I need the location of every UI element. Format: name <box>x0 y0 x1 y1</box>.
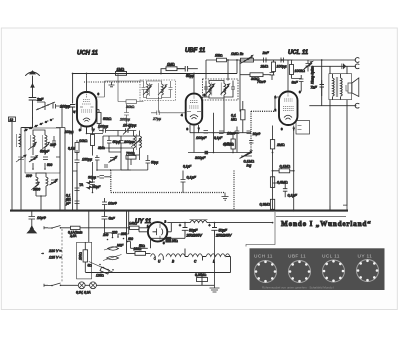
svg-text:100Ω: 100Ω <box>79 252 83 260</box>
svg-text:0,1µF: 0,1µF <box>288 194 298 198</box>
svg-text:0,5MΩ: 0,5MΩ <box>277 181 288 185</box>
heater taps <box>155 249 230 261</box>
capacitor 500pF <box>43 157 48 160</box>
socket panel dark box <box>250 248 385 290</box>
capacitor 0.1uF UBF k <box>219 131 224 134</box>
wire UCH pins <box>76 104 92 134</box>
svg-text:0,1MΩ: 0,1MΩ <box>280 165 291 169</box>
wire UBF k <box>220 133 222 135</box>
wire right of tuner <box>56 128 65 211</box>
wire antenna coupling <box>37 102 62 128</box>
resistor 10k screen <box>217 58 227 62</box>
resistor R 1M <box>116 72 127 76</box>
svg-text:UCL 11: UCL 11 <box>288 50 309 56</box>
IF transformer 1 box <box>140 80 176 101</box>
svg-text:0,1µF: 0,1µF <box>183 165 192 169</box>
svg-text:+: + <box>209 224 211 228</box>
UCH cathode parts <box>76 170 78 211</box>
tone cap Klang-Spitze <box>304 60 313 72</box>
svg-text:0,25MΩ: 0,25MΩ <box>195 273 207 277</box>
wire transformer <box>330 66 347 205</box>
svg-text:70nФ: 70nФ <box>257 80 266 84</box>
tuner trimmer arrows <box>28 142 37 150</box>
switch wafer dots 2 <box>37 108 39 110</box>
svg-text:UBF 11: UBF 11 <box>185 48 206 54</box>
resistor 0.5M UCL <box>270 177 274 188</box>
capacitor on shield line <box>247 131 252 134</box>
capacitor 5nF bus <box>102 211 108 228</box>
wire rail to UBF top <box>193 74 195 94</box>
capacitor 0.1uF UCL <box>283 183 288 197</box>
capacitor on shield <box>249 141 254 144</box>
detector chain top <box>228 59 356 61</box>
coil L5 <box>46 177 48 186</box>
transformer secondary <box>341 78 343 96</box>
tube UBF11 envelope <box>186 94 203 125</box>
resistor 55 diag <box>100 267 109 274</box>
capacitor 100uF <box>204 131 209 134</box>
ground on shielded bus <box>222 193 229 201</box>
svg-text:0,5MΩ: 0,5MΩ <box>224 142 234 146</box>
bus step to speaker <box>330 205 347 211</box>
resistor 700 <box>126 156 136 160</box>
trimmer arrow osc coil <box>131 138 142 147</box>
svg-text:→: → <box>41 251 44 255</box>
tuner cap small <box>52 136 56 148</box>
diode symbol on line <box>342 64 347 70</box>
ground on AVC <box>109 82 115 87</box>
tuner frame <box>25 128 60 173</box>
svg-text:50kΩ: 50kΩ <box>103 117 112 121</box>
tube UCH11 envelope <box>77 92 97 127</box>
fuse <box>71 226 81 229</box>
selector box <box>77 242 92 279</box>
capacitor 150pF <box>95 155 100 164</box>
wire IF1 <box>144 81 171 99</box>
resistor 0.3M UCL <box>270 199 274 209</box>
svg-text:1MΩ: 1MΩ <box>117 67 125 71</box>
wire avc <box>76 140 78 155</box>
wire heater right end <box>85 257 230 286</box>
svg-text:5Ω: 5Ω <box>88 264 93 268</box>
capacitor 8nF <box>299 75 304 87</box>
wire box <box>85 211 89 272</box>
UBF11 internals <box>190 94 198 103</box>
capacitor 0.1uF mains a <box>75 197 80 211</box>
wire screen feed <box>206 60 228 79</box>
wire sel to fuse <box>105 228 113 238</box>
resistor R 1M second <box>166 67 177 71</box>
shielded bus dotted <box>111 192 225 194</box>
dial lamp 2 <box>90 282 97 289</box>
svg-text:240: 240 <box>102 233 109 237</box>
svg-text:50Ω: 50Ω <box>139 244 146 248</box>
resistor 0.1M UCL grid <box>241 110 245 120</box>
wire osc mesh <box>103 136 139 155</box>
wire IF2 out <box>224 60 233 133</box>
capacitor 50pF <box>177 66 198 72</box>
resistor 0.1M AVC <box>75 143 79 153</box>
resistor 10k <box>91 135 95 146</box>
resistor 50k UCL <box>287 69 291 71</box>
wire antenna to tuner <box>22 118 33 128</box>
terminal 3 <box>355 103 359 108</box>
capacitor 50pF pad <box>146 155 151 170</box>
svg-text:UY 11: UY 11 <box>358 254 373 260</box>
svg-text:0,1M: 0,1M <box>68 147 75 151</box>
svg-text:log: log <box>247 164 252 168</box>
node dots filter <box>184 222 186 224</box>
svg-text:110: 110 <box>128 237 133 241</box>
trimmer osc2 <box>109 156 118 163</box>
AVC dashed line <box>84 81 140 83</box>
wire UCH to IF1 <box>97 81 144 97</box>
capacitor 0.1uF cath UY <box>181 171 186 193</box>
capacitor 100pF grid <box>70 105 78 112</box>
svg-text:2,5A: 2,5A <box>69 234 77 238</box>
wire osc mid vertical <box>114 131 129 137</box>
IF2 coil primary <box>209 84 211 95</box>
svg-text:0,1µF: 0,1µF <box>214 136 223 140</box>
wire rail to UCH top <box>86 74 88 93</box>
svg-text:10nФ: 10nФ <box>227 132 236 136</box>
svg-text:50µF: 50µF <box>219 229 228 233</box>
oscillator coil pair <box>134 136 136 148</box>
svg-text:1MΩ: 1MΩ <box>167 63 175 67</box>
wire rail drop to grid cap <box>72 74 74 104</box>
wire IF2 <box>206 81 233 99</box>
capacitor 30pF <box>97 176 111 179</box>
svg-text:125 V ≈: 125 V ≈ <box>49 256 61 260</box>
band switch contacts <box>24 118 55 131</box>
dial lamp 1 <box>78 282 85 289</box>
main ground bus <box>10 210 348 212</box>
capacitor 10nF mains b <box>102 198 107 211</box>
svg-text:200pµ: 200pµ <box>123 140 134 144</box>
IF1 capacitor right <box>169 88 173 90</box>
resistor 0.5M det2 <box>231 139 235 149</box>
svg-text:UCL 11: UCL 11 <box>322 254 340 260</box>
pot 0.1M log <box>240 151 253 159</box>
resistor 2M UCL <box>270 140 274 149</box>
output transformer frame <box>329 74 352 100</box>
resistor 30k det <box>250 73 263 77</box>
resistor 100k <box>290 65 294 75</box>
svg-text:220 V =: 220 V = <box>48 249 62 253</box>
filter box outline <box>246 212 275 247</box>
ground arrow mains <box>27 223 36 233</box>
shielded line to UCL dotted <box>251 110 275 112</box>
node osc <box>120 147 122 149</box>
wire osc grid return <box>112 155 148 170</box>
coil L3 <box>45 135 47 147</box>
wire UBF top to rail <box>193 74 195 89</box>
wire misc UCH bottom <box>87 127 104 193</box>
svg-text:Klang-Spitze: Klang-Spitze <box>311 66 315 84</box>
selector strut <box>89 262 113 273</box>
wire UCH cathode <box>73 111 77 211</box>
svg-text:100kΩ: 100kΩ <box>295 69 306 73</box>
resistor 140 <box>130 226 140 229</box>
svg-text:150pµ: 150pµ <box>82 158 92 162</box>
svg-text:10nФ: 10nФ <box>108 202 117 206</box>
IF2 coil secondary <box>224 84 226 95</box>
mains switch top <box>48 226 64 229</box>
speaker <box>348 83 352 93</box>
wire UCL col <box>273 126 294 211</box>
terminal 2 <box>355 64 359 69</box>
IF2 capacitor right <box>231 87 235 89</box>
transformer primary <box>333 78 335 96</box>
tone cap 7nF <box>320 80 325 96</box>
node rail <box>86 73 88 75</box>
wire UBF pins down <box>190 113 214 153</box>
selector rotor upper <box>108 247 119 251</box>
capacitor C-ant 2nF <box>29 95 36 118</box>
tuner extra coil core <box>31 135 43 148</box>
svg-text:5nF: 5nF <box>109 217 116 221</box>
ground at filter <box>210 236 220 293</box>
grid stopper network <box>275 97 280 111</box>
wire IF1 to UBF grid <box>159 97 186 113</box>
svg-text:UCH 11: UCH 11 <box>77 51 99 57</box>
electrolytic 50uF b <box>211 223 217 236</box>
svg-text:50µF: 50µF <box>189 229 198 233</box>
UY11 internals <box>153 229 157 236</box>
wire rail step <box>161 69 185 74</box>
wire rail to UCL top <box>287 60 289 92</box>
tube UCL11 envelope <box>279 92 298 126</box>
svg-text:13: 13 <box>10 118 14 122</box>
svg-text:125Ω: 125Ω <box>96 274 104 278</box>
svg-text:10kΩ: 10kΩ <box>79 139 88 143</box>
wire osc lower <box>97 155 131 170</box>
box resistor on bottom line <box>197 278 208 282</box>
IF2 capacitor left <box>204 87 208 89</box>
tube UY11 envelope <box>148 222 167 241</box>
wire rail junction x237 <box>236 60 238 74</box>
svg-text:100pµ: 100pµ <box>65 130 74 134</box>
svg-text:1MΩ lin: 1MΩ lin <box>231 52 243 56</box>
node dots top rail <box>236 59 238 61</box>
svg-text:MΩ: MΩ <box>231 118 237 122</box>
selector rotor lower <box>107 256 119 260</box>
wire lamps feed <box>78 253 127 285</box>
trimmer 15-50pF <box>114 127 137 135</box>
svg-text:50µF: 50µF <box>93 185 101 189</box>
capacitor 300uF <box>205 151 209 155</box>
svg-text:UY 11: UY 11 <box>135 219 152 225</box>
resistor 30ohm in box <box>83 250 88 262</box>
svg-text:8nF: 8nF <box>292 81 299 85</box>
filter choke <box>190 220 207 222</box>
svg-text:27pµ: 27pµ <box>152 117 161 121</box>
resistor 0.1M horizontal <box>279 169 290 173</box>
svg-text:100pµ: 100pµ <box>60 105 70 109</box>
svg-text:10µФ: 10µФ <box>253 132 261 136</box>
trimmer T2 <box>50 179 59 185</box>
resistor 160 <box>135 252 146 256</box>
wire det column <box>240 60 302 112</box>
svg-text:+: + <box>179 224 181 228</box>
svg-text:300µF: 300µF <box>195 156 206 160</box>
svg-text:30kΩ: 30kΩ <box>126 105 135 109</box>
svg-text:0,1µF: 0,1µF <box>187 176 197 180</box>
svg-text:500: 500 <box>47 163 53 167</box>
svg-text:L: L <box>213 260 215 264</box>
cathode resistor UY <box>166 237 171 242</box>
svg-text:30pµ: 30pµ <box>88 176 96 180</box>
node dots mid <box>213 132 215 134</box>
coil L4 <box>36 177 38 186</box>
IF1 coil secondary <box>162 84 164 95</box>
svg-text:500pF: 500pF <box>40 150 50 154</box>
voltage selector upper contacts <box>107 239 109 241</box>
UCH11 internals <box>82 92 91 104</box>
shielded lead TA vertical <box>233 171 235 211</box>
svg-text:10µФ: 10µФ <box>37 216 46 220</box>
antenna trimmer box 13 <box>9 117 16 122</box>
svg-text:3MΩ: 3MΩ <box>98 146 105 150</box>
wire x234 to pot <box>233 170 235 172</box>
wire det2 <box>188 133 251 153</box>
svg-text:0,3MΩ: 0,3MΩ <box>260 203 271 207</box>
output stage top wire <box>309 60 356 106</box>
svg-text:3nФ: 3nФ <box>50 143 57 147</box>
switch linkage dashed <box>61 229 63 283</box>
IF transformer 2 box <box>203 79 239 100</box>
wire UY anode <box>139 223 190 232</box>
svg-text:700Ω: 700Ω <box>126 152 135 156</box>
svg-text:2nF: 2nF <box>262 51 270 55</box>
svg-text:10kΩ: 10kΩ <box>215 54 223 58</box>
svg-text:100µF: 100µF <box>196 136 207 140</box>
wire left rail <box>12 122 21 211</box>
svg-text:Mondo I „Wunderland“: Mondo I „Wunderland“ <box>281 220 372 228</box>
svg-text:2MΩ: 2MΩ <box>260 65 269 69</box>
svg-text:UBF 11: UBF 11 <box>288 254 306 260</box>
trimmer T1 <box>16 155 26 162</box>
svg-text:NSF: NSF <box>117 244 124 248</box>
node dots UCL <box>272 170 274 172</box>
capacitor 10nF below bus <box>29 211 36 223</box>
phono TA input <box>87 181 92 189</box>
resistor 50k anode <box>97 110 100 113</box>
capacitor 200pF <box>124 104 129 125</box>
svg-text:30Ф: 30Ф <box>26 174 33 178</box>
left column wires to bus <box>41 171 73 211</box>
wire selector to UY <box>118 211 148 249</box>
feedback box <box>296 121 310 135</box>
wire tuner internals <box>33 130 45 169</box>
voltage selector lower contacts <box>99 264 101 266</box>
coil L2 <box>33 135 35 147</box>
capacitor left col <box>75 188 80 191</box>
volume pot 1M lin <box>241 58 254 62</box>
bottom mains switch <box>48 283 64 286</box>
IF1 capacitor left <box>142 88 146 90</box>
svg-text:250/265V: 250/265V <box>186 234 203 238</box>
capacitor 100pF det <box>281 58 293 63</box>
IF1 trimmer arrows <box>143 85 167 96</box>
svg-text:UCH 11: UCH 11 <box>254 254 273 260</box>
capacitor 70nF <box>270 73 275 81</box>
capacitor 2nF det <box>254 58 282 63</box>
svg-text:250/265V: 250/265V <box>215 234 232 238</box>
svg-text:100pµ: 100pµ <box>277 65 287 69</box>
svg-text:6,3V, 0,3A: 6,3V, 0,3A <box>76 291 91 295</box>
svg-text:100pµ: 100pµ <box>98 125 108 129</box>
svg-text:50pµ: 50pµ <box>151 161 158 165</box>
wire UBF anode to IF2 <box>202 81 206 98</box>
UCL11 internals <box>284 92 293 102</box>
IF2 trimmer arrows <box>206 84 230 95</box>
capacitor 50uF <box>90 177 95 193</box>
svg-text:200pµ: 200pµ <box>119 118 130 122</box>
svg-text:50pµ: 50pµ <box>186 74 194 78</box>
wire UY down <box>151 238 186 248</box>
tuner lower trimmer <box>31 182 40 190</box>
wire osc <box>134 131 140 156</box>
shielded lead dotted vertical <box>110 170 112 192</box>
svg-text:TA: TA <box>79 183 84 187</box>
tuner node dots <box>40 195 42 197</box>
top rail grid <box>73 73 237 75</box>
terminal 1 <box>355 58 359 63</box>
svg-text:Röhrensockel von unten gesehen: Röhrensockel von unten gesehen · Schaltb… <box>262 286 334 290</box>
capacitor 100pF osc <box>99 128 114 133</box>
svg-text:2nF: 2nF <box>36 98 44 102</box>
svg-text:25Ω: 25Ω <box>171 239 179 243</box>
resistor 30k <box>126 100 137 104</box>
bottom wire <box>64 284 215 286</box>
electrolytic 50uF a <box>182 223 188 239</box>
capacitor 200pF osc <box>119 136 124 148</box>
capacitor padding small <box>104 165 108 167</box>
variable capacitor CV1 <box>29 156 38 163</box>
node dots on bus <box>20 210 22 212</box>
svg-text:15-50pµ: 15-50pµ <box>123 124 136 128</box>
capacitor 50pF osc <box>107 136 112 148</box>
capacitor 27pF <box>151 111 167 116</box>
svg-text:3000: 3000 <box>33 188 40 192</box>
capacitor ant series <box>53 104 56 109</box>
capacitor 150pF cath <box>75 155 80 171</box>
resistor 2M vert <box>272 62 276 72</box>
svg-text:2MΩ: 2MΩ <box>276 143 285 147</box>
coil L1 <box>19 134 21 147</box>
svg-text:140Ω: 140Ω <box>129 222 137 226</box>
svg-text:7nF: 7nF <box>311 86 318 90</box>
wire tuner lower <box>36 173 46 211</box>
capacitor 10nF <box>235 127 240 139</box>
heater chain coils <box>151 254 164 260</box>
IF1 coil primary <box>147 84 149 95</box>
antenna <box>26 72 40 95</box>
